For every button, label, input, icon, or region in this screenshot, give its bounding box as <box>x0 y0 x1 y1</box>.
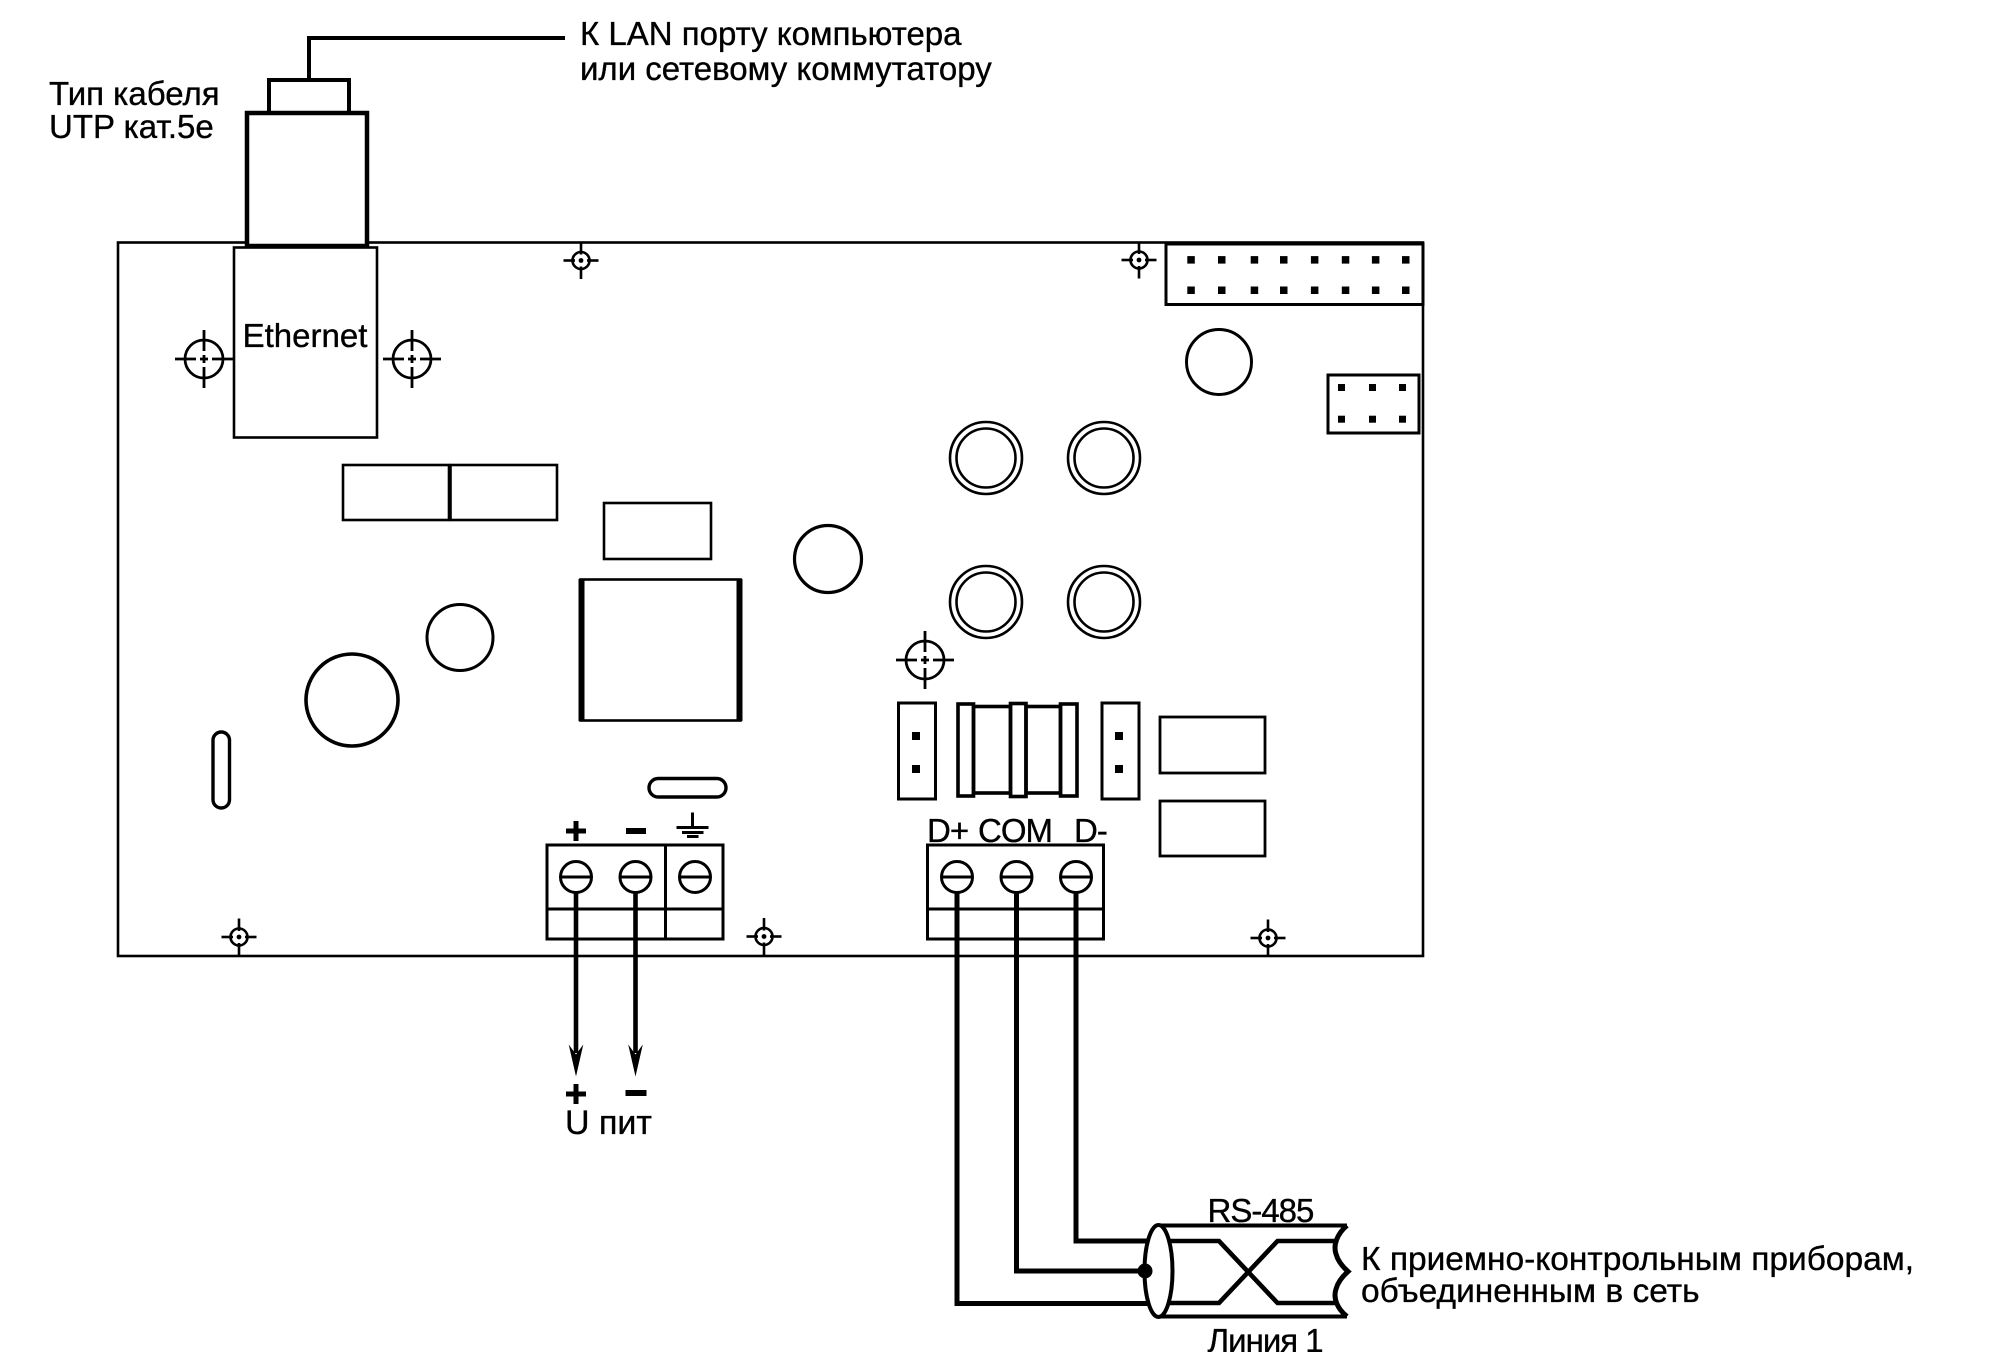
junction dot on COM wire <box>1138 1264 1153 1279</box>
jumper header right <box>1102 703 1139 799</box>
RJ45 plug body <box>247 113 367 246</box>
svg-text:U пит: U пит <box>565 1104 652 1142</box>
svg-text:RS-485: RS-485 <box>1208 1192 1314 1229</box>
electrolytic capacitor C2 (double circle) <box>1068 422 1140 494</box>
arrowhead - <box>628 1045 643 1077</box>
electrolytic capacitor C1 (double circle) <box>950 422 1022 494</box>
fiducial crosshair bottom left <box>222 919 257 956</box>
screw D+ <box>942 862 973 893</box>
electrolytic capacitor C4 (double circle) <box>1068 566 1140 638</box>
fiducial crosshair bottom middle <box>747 918 782 956</box>
big circle left (inductor) <box>306 654 398 746</box>
fiducial crosshair bottom right <box>1251 920 1286 956</box>
svg-text:D+: D+ <box>927 812 968 849</box>
cable break squiggle <box>1335 1226 1348 1317</box>
circle mid right <box>795 526 862 593</box>
component rectangle right upper <box>1160 717 1265 773</box>
svg-text:объединенным в сеть: объединенным в сеть <box>1361 1273 1700 1310</box>
wire D- <box>1076 893 1150 1241</box>
svg-text:Ethernet: Ethernet <box>243 317 368 354</box>
vertical pill slot <box>213 732 230 808</box>
2x8 pin header top right <box>1166 244 1423 305</box>
wire from + down <box>574 893 579 1053</box>
svg-text:COM: COM <box>978 812 1052 849</box>
arrowhead + <box>569 1045 584 1077</box>
cable sheath bottom line <box>1158 1315 1347 1319</box>
wire from - down <box>633 893 638 1053</box>
big square component (transformer) <box>581 579 741 721</box>
cable end ellipse <box>1145 1225 1173 1317</box>
mounting hole crosshair right of Ethernet <box>383 330 441 388</box>
ground symbol above block <box>677 813 709 837</box>
mounting hole crosshair left of Ethernet <box>175 330 233 388</box>
svg-text:Линия 1: Линия 1 <box>1208 1322 1323 1352</box>
electrolytic capacitor C3 (double circle) <box>950 566 1022 638</box>
horizontal pill slot <box>649 779 726 798</box>
power terminal block X1 <box>547 845 723 939</box>
svg-text:UTP кат.5е: UTP кат.5е <box>49 108 214 145</box>
screw COM <box>1001 862 1032 893</box>
svg-text:D-: D- <box>1074 812 1107 849</box>
wire COM <box>1017 893 1144 1271</box>
screw ground <box>680 862 711 893</box>
plus label above block <box>566 821 586 841</box>
cable sheath top line <box>1158 1224 1347 1228</box>
screw + <box>561 862 592 893</box>
component rectangle pair <box>343 465 557 520</box>
cable internal wire lower <box>1170 1241 1336 1303</box>
component rectangle center <box>604 503 711 559</box>
capacitor bank bars <box>958 704 1077 797</box>
fiducial crosshair top center <box>564 242 599 279</box>
svg-text:К LAN порту компьютера: К LAN порту компьютера <box>580 15 962 52</box>
mounting hole crosshair middle (near jumpers) <box>896 631 954 689</box>
fiducial crosshair top right <box>1122 242 1157 279</box>
circle below 2x8 header <box>1187 330 1252 395</box>
wire D+ <box>957 893 1149 1304</box>
minus label below arrow <box>626 1090 647 1096</box>
svg-text:Тип кабеля: Тип кабеля <box>49 75 220 112</box>
circle mid center <box>427 605 493 671</box>
svg-text:или сетевому коммутатору: или сетевому коммутатору <box>580 50 992 87</box>
RS485 terminal block X2 <box>928 845 1104 939</box>
jumper header left <box>899 703 936 799</box>
wire to LAN port <box>309 38 565 80</box>
2x3 pin header right <box>1328 375 1419 433</box>
plus label below arrow <box>566 1084 586 1104</box>
screw D- <box>1061 862 1092 893</box>
component rectangle right lower <box>1160 801 1265 856</box>
cable internal wire upper <box>1170 1241 1336 1303</box>
RJ45 plug latch <box>269 80 349 113</box>
PCB board outline <box>118 243 1423 957</box>
Ethernet socket outline <box>234 248 377 438</box>
minus label above block <box>626 828 646 834</box>
screw - <box>620 862 651 893</box>
